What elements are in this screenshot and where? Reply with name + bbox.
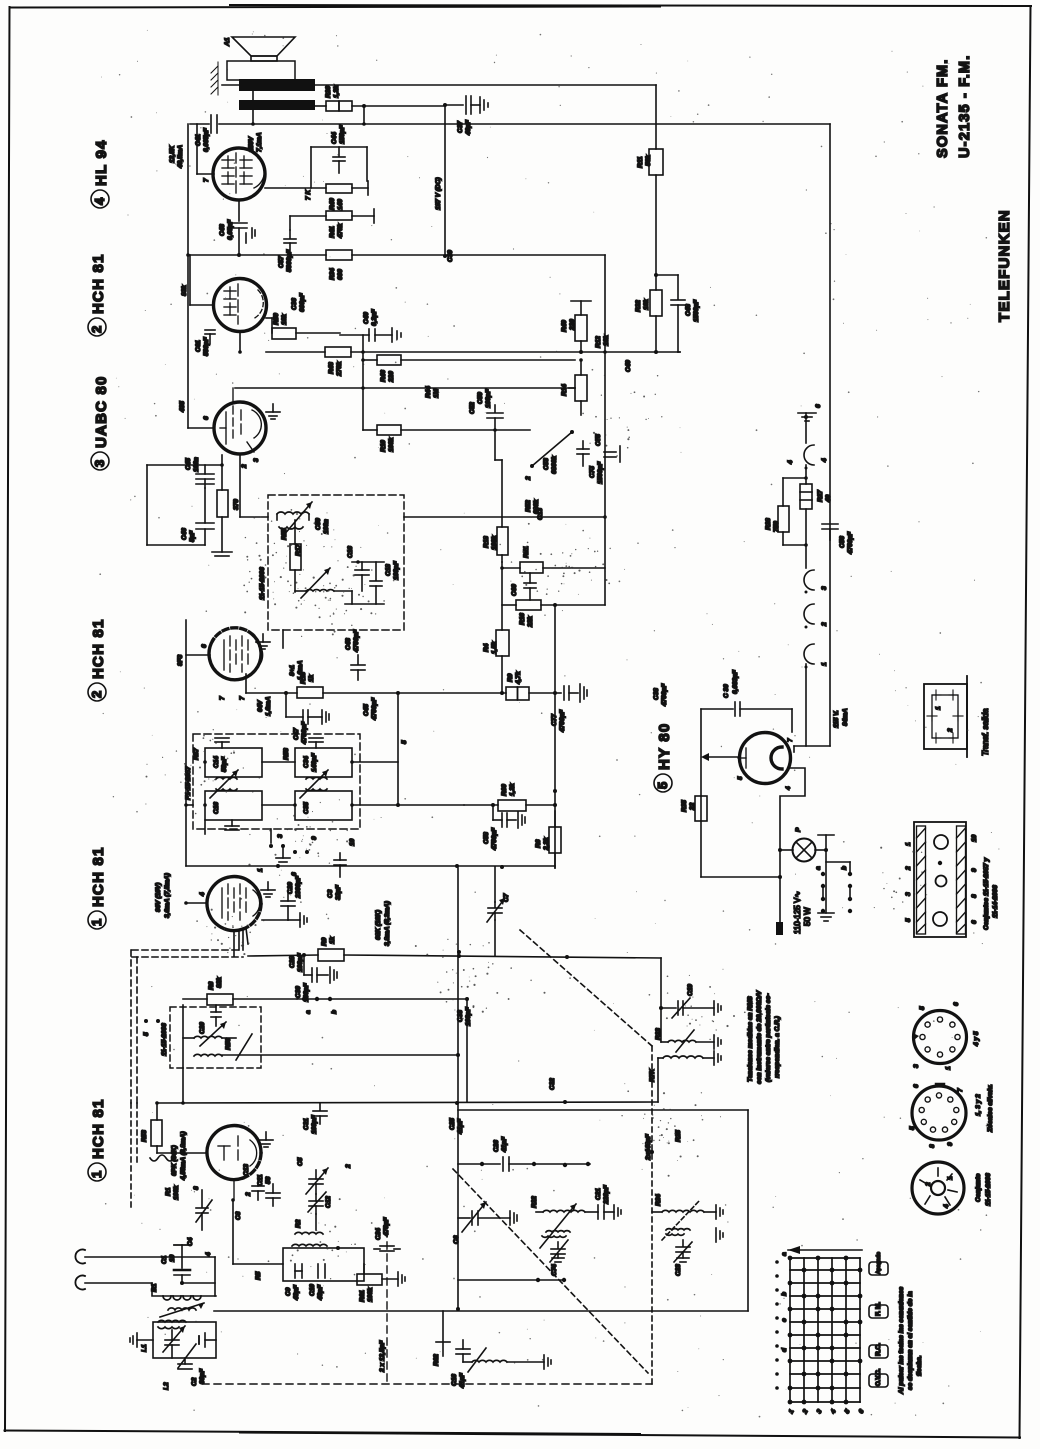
svg-text:4700µF: 4700µF	[559, 709, 566, 733]
svg-text:3: 3	[92, 459, 107, 467]
capacitor C30b	[295, 955, 337, 1002]
svg-text:C46: C46	[181, 528, 188, 540]
svg-text:R44: R44	[425, 386, 432, 398]
svg-text:100pF: 100pF	[393, 560, 400, 580]
svg-text:R48: R48	[328, 362, 335, 374]
svg-text:10k: 10k	[281, 314, 288, 325]
tube V5 HY80	[740, 733, 791, 784]
svg-text:50 W: 50 W	[803, 907, 812, 926]
svg-text:8+1: 8+1	[289, 665, 296, 676]
resistor R18	[483, 430, 508, 562]
wire bus y124 with series capacitor C41	[190, 123, 209, 125]
svg-text:2: 2	[925, 1182, 932, 1187]
svg-text:3: 3	[913, 1064, 920, 1068]
svg-text:R32: R32	[635, 300, 642, 312]
resistor R35	[681, 796, 707, 821]
bus y866	[186, 865, 555, 867]
svg-text:Tensiones medidas en RMS: Tensiones medidas en RMS	[747, 996, 754, 1082]
svg-text:R57: R57	[193, 748, 200, 760]
svg-text:L2: L2	[163, 1382, 170, 1390]
svg-text:C20: C20	[199, 1022, 206, 1034]
svg-text:R40: R40	[329, 198, 336, 210]
cathode ribbon wires	[234, 928, 248, 956]
svg-text:C26: C26	[493, 1140, 500, 1152]
label tube 5 HY80	[654, 723, 673, 792]
resistor R11	[637, 85, 663, 290]
svg-text:8: 8	[929, 1144, 936, 1148]
svg-text:HL 94: HL 94	[93, 139, 110, 186]
svg-text:220: 220	[388, 371, 395, 383]
antenna ground	[174, 1245, 190, 1268]
svg-text:6: 6	[913, 1084, 920, 1088]
coil R62 bottom	[433, 1311, 551, 1389]
capacitor C4 trimmer	[187, 1190, 212, 1246]
resistor R19 with ground top	[561, 301, 591, 352]
antenna	[75, 1250, 216, 1297]
svg-text:84mA: 84mA	[842, 708, 849, 726]
svg-text:b: b	[781, 1292, 788, 1296]
extra value annotations	[205, 250, 822, 1280]
svg-text:1,6mA: 1,6mA	[297, 660, 304, 680]
dashed diagonal lower	[453, 1169, 648, 1373]
svg-text:4700µF: 4700µF	[491, 827, 498, 851]
svg-text:6: 6	[971, 920, 978, 924]
svg-text:C35: C35	[303, 802, 310, 814]
svg-text:1: 1	[257, 868, 264, 872]
svg-text:C55: C55	[595, 434, 602, 446]
detector coil L12	[295, 590, 352, 591]
label tube 4 HL94	[91, 139, 110, 208]
svg-text:C60: C60	[511, 584, 518, 596]
svg-text:C43: C43	[345, 638, 352, 650]
svg-text:C16: C16	[213, 802, 220, 814]
svg-text:C2: C2	[191, 1377, 198, 1386]
svg-text:Conjuntos 11-15-2087 y: Conjuntos 11-15-2087 y	[983, 857, 990, 930]
svg-text:9: 9	[311, 836, 318, 840]
heater V2	[804, 604, 814, 624]
svg-text:4,50mA (3,8mA): 4,50mA (3,8mA)	[180, 1131, 187, 1181]
svg-text:40µF: 40µF	[465, 119, 472, 136]
resistor R32	[635, 273, 662, 352]
tuning eye marks	[595, 434, 620, 462]
svg-text:1M: 1M	[433, 388, 440, 398]
svg-text:R4: R4	[483, 643, 490, 652]
label tube 2 HCH81	[88, 253, 107, 336]
svg-text:220: 220	[569, 319, 576, 331]
junction to HY80	[794, 745, 830, 747]
svg-text:220pF: 220pF	[603, 1184, 610, 1205]
svg-text:2x448µF: 2x448µF	[645, 1133, 652, 1161]
svg-text:7: 7	[957, 1088, 964, 1092]
svg-text:R60: R60	[501, 784, 508, 796]
svg-text:100pF: 100pF	[485, 388, 492, 408]
capacitor C40	[340, 308, 401, 342]
vertical x555	[554, 605, 556, 868]
svg-text:11-15-2006: 11-15-2006	[161, 1023, 168, 1056]
svg-text:0,05µF: 0,05µF	[227, 219, 234, 240]
svg-text:4: 4	[943, 1204, 950, 1209]
ground right of UABC80	[266, 404, 280, 419]
resistor R14	[561, 358, 587, 415]
svg-text:R5: R5	[255, 1271, 262, 1280]
svg-text:2: 2	[905, 866, 912, 871]
svg-text:370: 370	[233, 499, 240, 510]
coil RFK	[649, 1051, 721, 1102]
svg-text:82k: 82k	[216, 977, 223, 988]
svg-text:C61: C61	[195, 340, 202, 352]
svg-text:C3: C3	[327, 889, 334, 898]
svg-text:C32: C32	[549, 1078, 556, 1090]
bus y388	[235, 387, 575, 389]
tube V4 HL94	[213, 148, 265, 200]
svg-text:a: a	[815, 866, 822, 870]
svg-text:0,2µF: 0,2µF	[371, 308, 378, 326]
svg-text:C41: C41	[195, 134, 202, 146]
vertical x363	[362, 335, 364, 430]
trimmer C7	[487, 893, 510, 922]
svg-text:C16: C16	[347, 546, 354, 558]
capacitor C74b	[374, 1216, 400, 1251]
svg-text:P: P	[795, 827, 802, 832]
node y124/x364	[362, 122, 366, 126]
svg-text:C 30: C 30	[723, 684, 730, 698]
svg-text:1,6mA: 1,6mA	[265, 696, 272, 716]
svg-text:0,033µF: 0,033µF	[732, 669, 739, 694]
svg-text:12,5K: 12,5K	[169, 144, 176, 163]
heater V4	[804, 445, 814, 465]
capacitor C61 grid	[195, 330, 215, 356]
svg-text:10: 10	[169, 1254, 176, 1262]
svg-text:R62: R62	[433, 1354, 440, 1366]
svg-text:4700pF: 4700pF	[371, 697, 378, 721]
svg-text:C29: C29	[287, 882, 294, 894]
svg-text:4,7k: 4,7k	[515, 671, 522, 685]
svg-text:Apagado: Apagado	[876, 1252, 882, 1274]
svg-text:43pF: 43pF	[317, 1284, 324, 1301]
svg-text:C33: C33	[457, 1010, 464, 1022]
B+ vertical x830	[829, 124, 831, 746]
capacitor C30 top	[701, 669, 792, 732]
IF1 primary left loop	[193, 738, 262, 830]
svg-text:R9: R9	[507, 673, 514, 682]
oscillator trimmers C5 C11 C12	[257, 1157, 332, 1214]
svg-text:10: 10	[971, 834, 978, 842]
svg-text:C10: C10	[309, 1284, 316, 1296]
svg-text:100k: 100k	[388, 437, 395, 452]
svg-text:6: 6	[815, 404, 822, 408]
svg-text:C25: C25	[449, 1118, 456, 1130]
svg-text:HCH 81: HCH 81	[90, 846, 107, 907]
vertical x183 below IF2	[182, 1068, 184, 1103]
svg-text:7,1mA: 7,1mA	[256, 132, 263, 152]
svg-text:Transf. salida: Transf. salida	[981, 708, 990, 756]
svg-text:C7: C7	[503, 893, 510, 902]
svg-text:R26: R26	[325, 86, 332, 98]
svg-text:3,8mA (6,3mA): 3,8mA (6,3mA)	[384, 901, 391, 946]
svg-text:1, 3 y 2: 1, 3 y 2	[975, 1094, 982, 1116]
svg-text:2 x 12,5pF: 2 x 12,5pF	[379, 1340, 386, 1373]
svg-text:5: 5	[143, 1032, 150, 1036]
svg-text:C57: C57	[278, 256, 285, 268]
svg-text:22k: 22k	[527, 616, 534, 628]
svg-text:C45: C45	[363, 704, 370, 716]
svg-text:100pF: 100pF	[311, 1114, 318, 1134]
svg-text:1500µF: 1500µF	[693, 299, 700, 322]
oscillator coils	[283, 1214, 364, 1301]
svg-text:10k: 10k	[603, 335, 610, 346]
svg-text:7: 7	[239, 696, 246, 700]
svg-text:64V: 64V	[257, 700, 264, 712]
bus y1055	[222, 1054, 458, 1056]
svg-text:68K (10K): 68K (10K)	[375, 910, 382, 940]
dashed AVC pair horizontal	[131, 950, 243, 1103]
wire pin to y352	[239, 332, 241, 352]
voltage selector panel	[914, 822, 966, 937]
svg-text:100pF: 100pF	[297, 952, 304, 972]
svg-text:b: b	[331, 1010, 338, 1014]
svg-text:L1: L1	[141, 1344, 148, 1352]
svg-text:R41: R41	[329, 226, 336, 238]
svg-text:30pF: 30pF	[199, 1368, 206, 1384]
IF transformer 2 dashed box	[170, 1007, 261, 1068]
heater chain ground top	[798, 413, 816, 443]
capacitor C43	[219, 200, 255, 255]
svg-text:150pF: 150pF	[339, 124, 346, 144]
bottom wire y877	[701, 876, 780, 878]
svg-text:C53: C53	[543, 458, 550, 470]
svg-text:C8: C8	[235, 1211, 242, 1220]
svg-text:11-15-2006: 11-15-2006	[985, 1173, 992, 1206]
svg-text:2: 2	[947, 728, 954, 733]
svg-text:4: 4	[199, 892, 206, 897]
bus y693 with resistor R13 and R9b	[245, 674, 247, 693]
svg-text:100k: 100k	[367, 1287, 374, 1302]
svg-text:7 K: 7 K	[305, 189, 312, 200]
svg-text:con instrumento de 20.000Ω/V: con instrumento de 20.000Ω/V	[756, 990, 763, 1084]
svg-text:R22: R22	[531, 1196, 538, 1208]
svg-text:115 V.: 115 V.	[833, 710, 840, 728]
svg-text:4: 4	[205, 1252, 212, 1257]
svg-text:6: 6	[201, 644, 208, 648]
svg-text:C16: C16	[451, 1374, 458, 1386]
wire V1b bottom path	[231, 1198, 235, 1202]
svg-text:7: 7	[787, 738, 794, 742]
svg-text:a: a	[781, 1252, 788, 1256]
svg-text:R1: R1	[165, 1187, 172, 1196]
svg-text:6: 6	[291, 872, 298, 876]
ground right of V1a	[261, 882, 275, 897]
svg-text:5: 5	[919, 1006, 926, 1010]
svg-text:R34: R34	[329, 268, 336, 280]
svg-text:9: 9	[947, 1142, 954, 1146]
detector entry wires	[239, 454, 241, 517]
capacitor C37	[445, 96, 488, 136]
detector coil L11	[277, 512, 309, 529]
svg-text:C38: C38	[653, 688, 660, 700]
capacitor C3 32µF on bus	[327, 853, 346, 900]
svg-text:C49: C49	[625, 360, 632, 372]
svg-text:C40: C40	[363, 312, 370, 324]
svg-text:4: 4	[92, 197, 107, 205]
svg-text:40,5mA: 40,5mA	[177, 145, 184, 169]
capacitor C44	[311, 124, 367, 173]
svg-text:C1: C1	[161, 1255, 168, 1264]
svg-text:9: 9	[971, 868, 978, 872]
svg-text:100k: 100k	[173, 1185, 180, 1200]
resistor R4	[483, 630, 509, 693]
IF transformer 1 dashed box	[193, 734, 360, 829]
svg-text:R24: R24	[655, 1194, 662, 1206]
svg-text:4 y 5: 4 y 5	[973, 1031, 980, 1047]
tube socket 8 pin	[913, 1002, 967, 1070]
svg-text:5: 5	[909, 1126, 916, 1130]
svg-text:2: 2	[821, 622, 828, 627]
chassis hatch left of speaker	[211, 62, 218, 95]
keyboard left pin dots	[775, 1260, 779, 1390]
svg-text:Al pulsar las teclas las conex: Al pulsar las teclas las conexiones	[898, 1286, 905, 1395]
svg-text:se desplazan en el sentido de: se desplazan en el sentido de la	[907, 1291, 914, 1390]
svg-text:R16: R16	[519, 613, 526, 625]
svg-text:1: 1	[821, 662, 828, 666]
svg-text:41pF: 41pF	[457, 1118, 464, 1135]
svg-text:96V (10V): 96V (10V)	[155, 883, 162, 912]
detector caps right	[345, 546, 400, 604]
FM coil cluster C19	[659, 958, 721, 1018]
resistor R61	[357, 1264, 405, 1302]
svg-text:1,2k: 1,2k	[509, 783, 516, 796]
tube socket 9 pin	[909, 1084, 966, 1148]
svg-text:7: 7	[203, 178, 210, 182]
svg-text:750: 750	[773, 521, 780, 532]
svg-text:U-2135 - F.M.: U-2135 - F.M.	[957, 55, 973, 158]
svg-text:Conjunto: Conjunto	[975, 1173, 982, 1202]
svg-text:41pF: 41pF	[501, 1136, 508, 1153]
resistor R8	[183, 977, 297, 1005]
svg-text:5: 5	[401, 740, 408, 744]
svg-text:56k: 56k	[645, 155, 652, 166]
svg-text:9F3: 9F3	[177, 654, 184, 666]
cluster below UABC80: C45 C46 R45	[147, 455, 240, 556]
svg-text:R17: R17	[295, 544, 302, 556]
svg-text:8: 8	[193, 1186, 200, 1190]
svg-text:HCH 81: HCH 81	[90, 253, 107, 314]
svg-text:R49: R49	[561, 320, 568, 332]
tube V1a HCH81	[207, 877, 261, 931]
svg-text:C21: C21	[595, 1188, 602, 1200]
svg-text:C34: C34	[303, 756, 310, 768]
svg-text:10k: 10k	[643, 299, 650, 310]
wire pin7 HL94	[197, 173, 214, 175]
svg-text:R25: R25	[675, 1130, 682, 1142]
svg-text:flecha.: flecha.	[916, 1355, 923, 1376]
bus y352 with resistor R47	[266, 351, 325, 353]
tube V1b HCH81	[207, 1126, 261, 1180]
band switch dashed diagonal upper	[520, 930, 652, 1385]
resistor R28 parallel	[765, 476, 808, 547]
svg-text:5: 5	[737, 776, 744, 780]
svg-text:A1: A1	[224, 37, 231, 47]
svg-text:C9: C9	[285, 1287, 292, 1296]
capacitor C27 to ground	[551, 684, 587, 733]
ground bus y255 with series resistor R34	[190, 254, 326, 256]
svg-text:6: 6	[953, 1002, 960, 1006]
svg-text:2: 2	[89, 690, 104, 698]
svg-text:UABC 80: UABC 80	[93, 375, 110, 448]
svg-text:2: 2	[345, 1164, 352, 1169]
svg-text:R35: R35	[681, 800, 688, 812]
svg-text:C31: C31	[303, 1118, 310, 1130]
svg-text:500pF: 500pF	[203, 336, 210, 356]
big band rectangle	[214, 1110, 748, 1311]
svg-text:C6: C6	[453, 1235, 460, 1244]
coil B1 top winding	[151, 1283, 201, 1300]
svg-text:c: c	[781, 1318, 788, 1322]
svg-text:680k: 680k	[533, 499, 540, 514]
svg-text:11-14-2006: 11-14-2006	[992, 885, 999, 918]
svg-text:6: 6	[203, 416, 210, 420]
svg-text:B1: B1	[151, 1283, 158, 1292]
dashed verticals near left border	[131, 1103, 137, 1210]
svg-text:R27: R27	[817, 490, 824, 502]
svg-text:11-15-2006: 11-15-2006	[259, 567, 266, 600]
HY80 left circuit	[700, 709, 702, 877]
svg-text:2: 2	[241, 464, 248, 469]
label tube 3 UABC80	[91, 375, 110, 470]
switch contacts y999	[297, 997, 467, 1014]
svg-text:600: 600	[337, 269, 344, 280]
svg-text:F. M.: F. M.	[875, 1302, 882, 1316]
svg-text:4700µF: 4700µF	[847, 531, 854, 555]
svg-text:R56: R56	[225, 1038, 232, 1050]
detector resistor	[281, 520, 301, 592]
svg-text:10: 10	[349, 838, 356, 846]
svg-text:C44: C44	[331, 132, 338, 144]
capacitor C48	[656, 275, 700, 352]
svg-text:2: 2	[245, 1192, 252, 1197]
capacitor C57	[278, 230, 296, 272]
svg-text:HY 80: HY 80	[656, 723, 673, 770]
keyboard arrow	[788, 1246, 862, 1254]
svg-text:C52: C52	[469, 402, 476, 414]
svg-text:435: 435	[179, 401, 186, 413]
svg-text:100n: 100n	[323, 519, 330, 534]
svg-text:1: 1	[89, 1170, 104, 1178]
svg-text:C18: C18	[385, 564, 392, 576]
capacitor C1	[161, 1254, 215, 1285]
svg-text:3: 3	[821, 586, 828, 590]
output transformer winding bars	[239, 79, 315, 91]
svg-text:R14: R14	[561, 384, 568, 396]
svg-text:1: 1	[945, 1066, 952, 1070]
capacitor C58 to ground	[483, 805, 525, 851]
resistor R60	[464, 783, 557, 811]
wire UABC80 left	[188, 427, 214, 429]
resistor R31	[800, 484, 832, 568]
vertical x502 segment	[501, 562, 503, 630]
svg-text:R18: R18	[483, 536, 490, 548]
resistor R41	[290, 209, 374, 239]
svg-text:6800k: 6800k	[551, 456, 558, 474]
capacitor C56 on B+	[822, 524, 854, 555]
svg-text:C19: C19	[687, 984, 694, 996]
svg-text:3,6mA (7,5mA): 3,6mA (7,5mA)	[164, 873, 171, 918]
vertical x445	[444, 105, 446, 256]
speaker LS	[224, 37, 295, 80]
svg-text:5: 5	[655, 781, 670, 789]
svg-text:b: b	[841, 866, 848, 870]
svg-text:C56: C56	[839, 536, 846, 548]
svg-text:2,2k: 2,2k	[543, 837, 550, 851]
